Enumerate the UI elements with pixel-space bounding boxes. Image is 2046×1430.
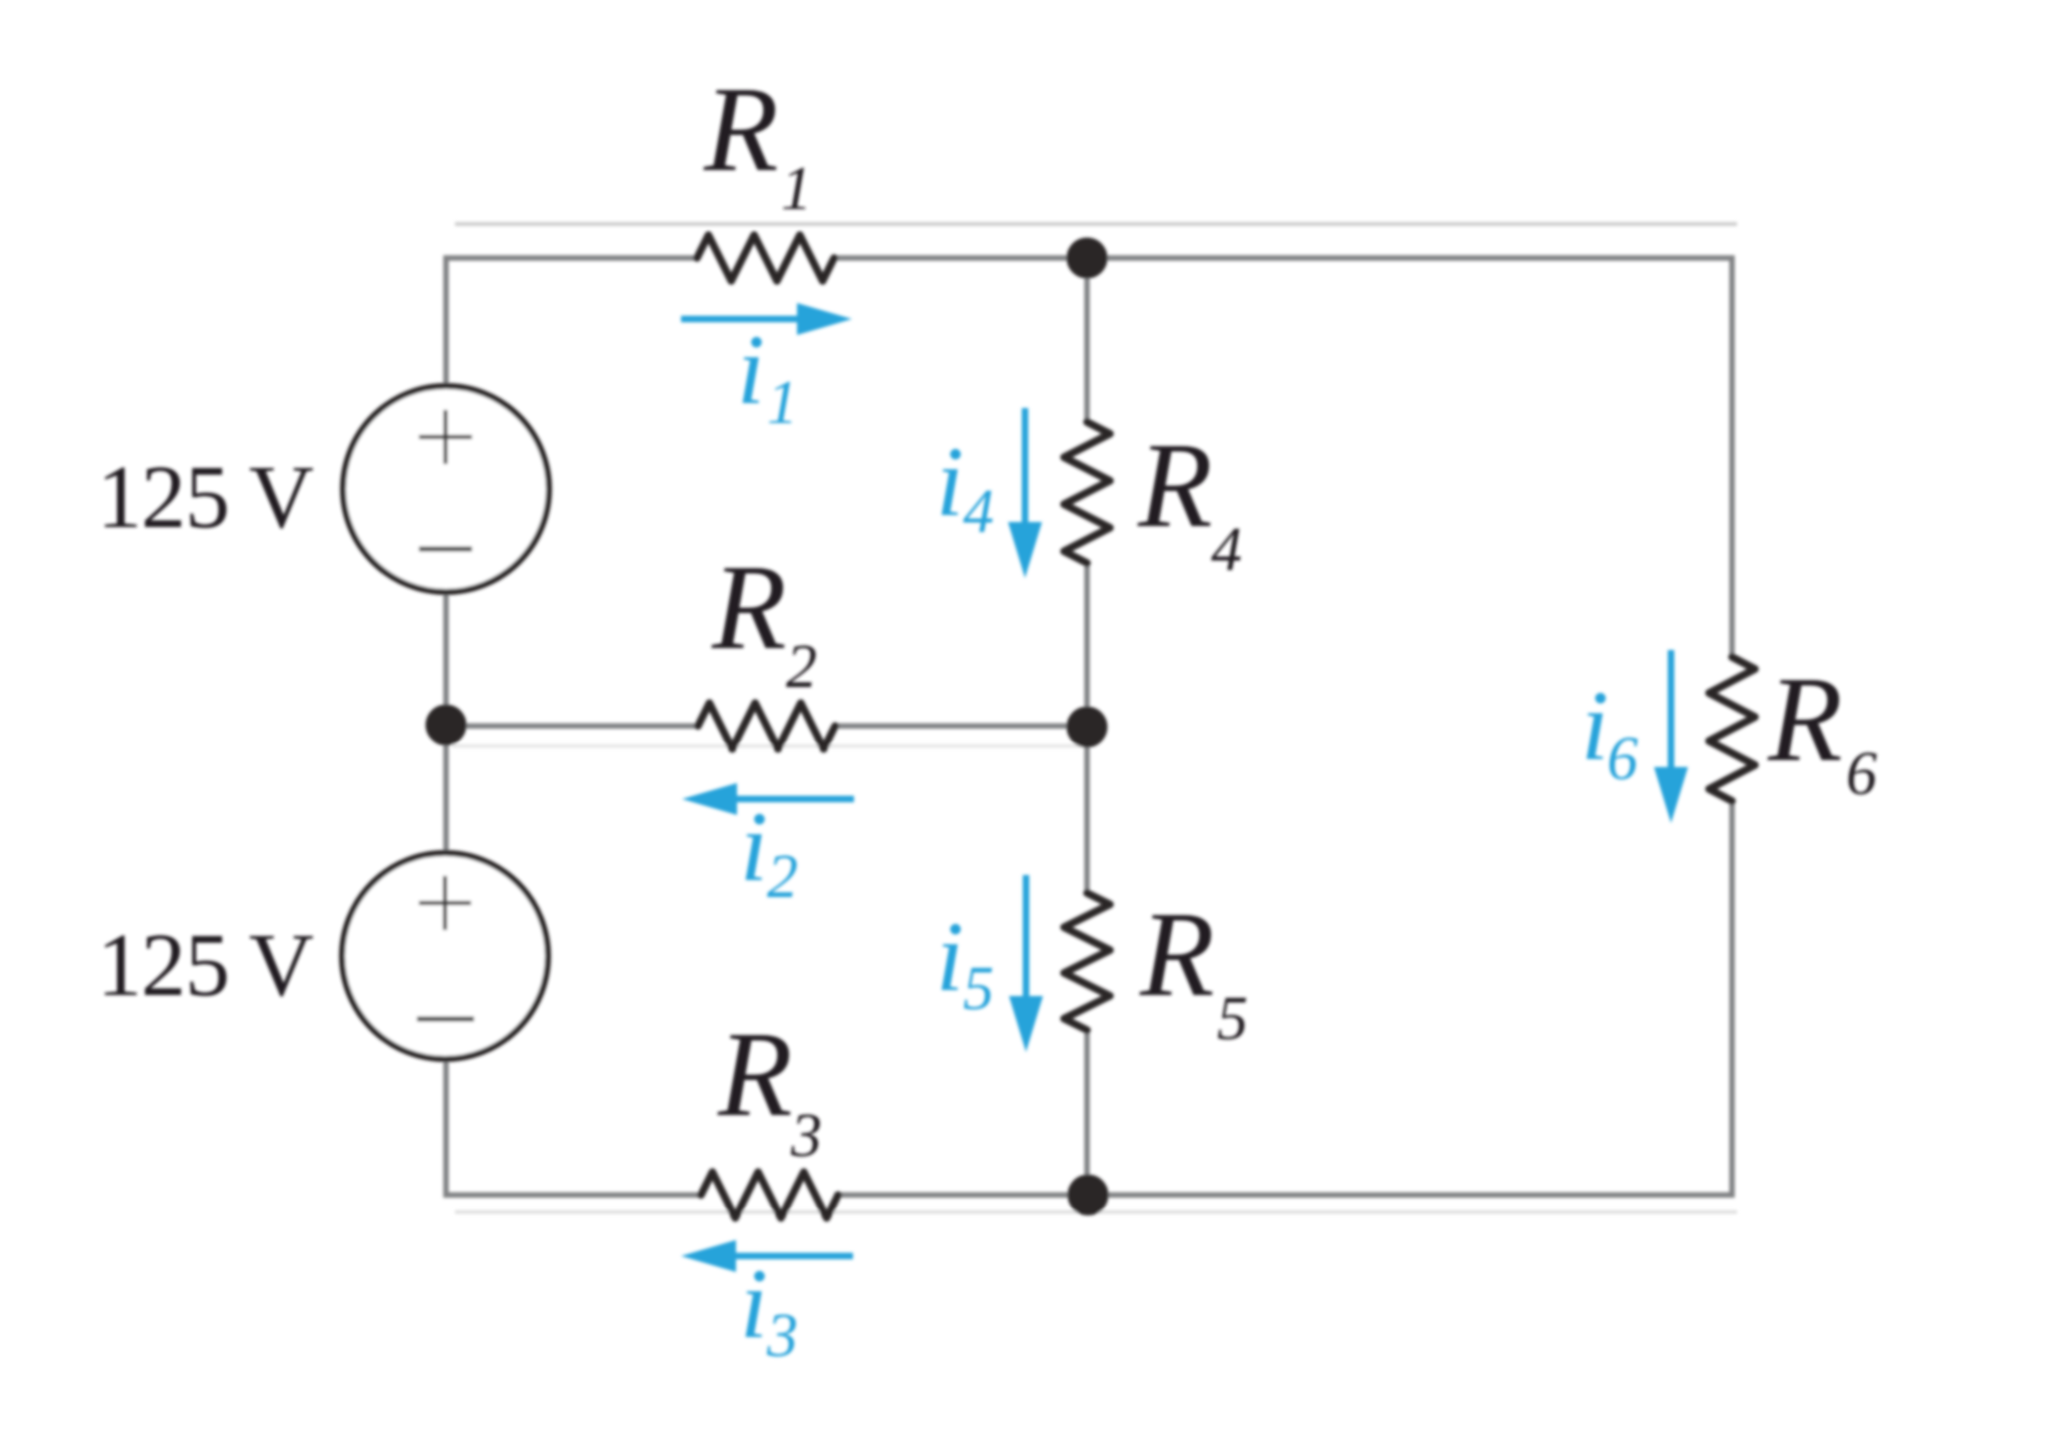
svg-text:i: i	[936, 426, 964, 537]
label i5	[936, 901, 994, 1023]
svg-text:R: R	[1137, 418, 1213, 553]
label i2	[740, 791, 798, 911]
wire middle vertical top (node a to R4)	[1084, 258, 1090, 424]
wire left vertical between V1 and V2 (through node b)	[443, 590, 449, 855]
svg-text:i: i	[740, 1248, 768, 1359]
svg-text:i: i	[740, 791, 768, 902]
resistor R5	[1064, 893, 1110, 1030]
wire middle vertical between R4 and R5 (through node c)	[1084, 561, 1090, 895]
wire middle vertical bottom (R5 to node d)	[1084, 1028, 1090, 1195]
resistor R4	[1064, 422, 1110, 563]
svg-text:R: R	[717, 1007, 793, 1142]
svg-text:4: 4	[963, 478, 994, 546]
svg-text:6: 6	[1846, 740, 1877, 808]
resistor R2	[698, 703, 835, 749]
svg-text:2: 2	[767, 843, 798, 911]
voltage source V1 125 V	[343, 386, 549, 592]
label R4	[1137, 418, 1242, 584]
svg-text:4: 4	[1211, 516, 1242, 584]
svg-text:i: i	[936, 901, 964, 1012]
junction node d (bottom, R3/R5/bottom wire)	[1068, 1175, 1109, 1216]
label i3	[740, 1248, 798, 1370]
wire top left segment (left corner to R1)	[446, 258, 699, 388]
label R1	[703, 62, 812, 223]
current arrow i3	[681, 1240, 853, 1272]
svg-text:2: 2	[786, 633, 817, 701]
junction node c (middle, R2/R4/R5)	[1067, 707, 1108, 748]
svg-text:5: 5	[963, 955, 994, 1023]
wire middle horizontal left segment (node b to R2)	[446, 723, 700, 729]
wire middle horizontal right segment (R2 to node c)	[834, 723, 1087, 729]
label R2	[711, 540, 817, 701]
wire ghost bottom artifact	[455, 1210, 1737, 1214]
current arrow i6	[1654, 650, 1688, 823]
resistor R3	[701, 1172, 838, 1218]
svg-text:6: 6	[1607, 725, 1638, 793]
junction node a (top, R1/R4/top wire)	[1067, 238, 1108, 279]
svg-text:5: 5	[1217, 985, 1248, 1053]
label R3	[717, 1007, 822, 1170]
svg-text:1: 1	[781, 155, 812, 223]
current arrow i4	[1008, 408, 1042, 578]
voltage source V2 125 V	[342, 853, 548, 1059]
svg-text:i: i	[737, 314, 765, 425]
svg-text:i: i	[1581, 670, 1609, 781]
wire top right segment (R1 to top-right corner, down to R6)	[833, 258, 1732, 659]
wire ghost top artifact	[455, 222, 1737, 226]
current arrow i5	[1009, 875, 1043, 1052]
svg-text:3: 3	[766, 1302, 798, 1370]
svg-text:1: 1	[767, 369, 798, 437]
label R6	[1767, 652, 1877, 808]
svg-text:R: R	[1139, 887, 1215, 1022]
current arrow i2	[682, 783, 854, 815]
svg-text:125 V: 125 V	[97, 448, 313, 547]
svg-text:R: R	[703, 62, 779, 197]
svg-text:125 V: 125 V	[97, 916, 313, 1015]
svg-text:R: R	[1767, 652, 1843, 787]
junction node b (left middle, sources/R2)	[426, 705, 467, 746]
current arrow i1	[681, 303, 852, 335]
resistor R1	[697, 235, 834, 281]
wire bottom right segment (R6 down, bottom-right corner, to R3)	[834, 799, 1732, 1195]
resistor R6	[1709, 657, 1755, 801]
wire ghost middle artifact	[452, 744, 1084, 748]
label R5	[1139, 887, 1248, 1053]
svg-text:R: R	[711, 540, 787, 675]
wire bottom left segment (R3 to bottom-left corner, up to V2)	[446, 1059, 703, 1195]
label i4	[936, 426, 994, 546]
svg-text:3: 3	[790, 1102, 822, 1170]
label i1	[737, 314, 798, 437]
label i6	[1581, 670, 1638, 793]
